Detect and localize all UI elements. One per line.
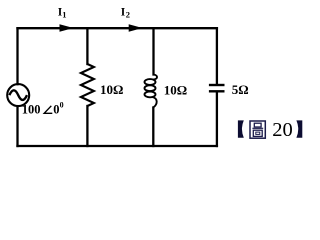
svg-text:20: 20 — [272, 119, 293, 141]
wire top bus — [18, 27, 217, 29]
wire left branch lower — [16, 106, 18, 146]
wire resistor branch lower — [86, 106, 88, 146]
svg-text:100: 100 — [22, 103, 41, 117]
source V1 (AC) — [7, 84, 29, 106]
wire inductor branch upper — [152, 28, 154, 74]
wire resistor branch upper — [86, 28, 88, 64]
svg-text:5Ω: 5Ω — [232, 82, 249, 97]
caption bracket left — [238, 120, 244, 137]
wire left branch upper — [16, 28, 18, 84]
wire bottom bus — [18, 145, 217, 147]
caption glyph TU (figure) — [250, 121, 265, 138]
angle symbol — [44, 106, 52, 114]
svg-text:2: 2 — [126, 9, 130, 19]
wire inductor branch lower — [152, 108, 154, 147]
svg-text:10Ω: 10Ω — [100, 82, 123, 97]
arrow I1 — [60, 24, 74, 31]
svg-text:10Ω: 10Ω — [164, 82, 187, 97]
wire capacitor branch upper — [216, 28, 218, 84]
svg-text:1: 1 — [62, 9, 66, 19]
svg-text:0: 0 — [53, 103, 59, 117]
wire capacitor branch lower — [216, 92, 218, 146]
inductor L1 — [145, 75, 158, 108]
caption bracket right — [296, 120, 302, 137]
arrow I2 — [129, 24, 143, 31]
resistor R1 — [81, 64, 94, 106]
svg-text:0: 0 — [60, 101, 64, 110]
capacitor C1 — [209, 85, 225, 91]
